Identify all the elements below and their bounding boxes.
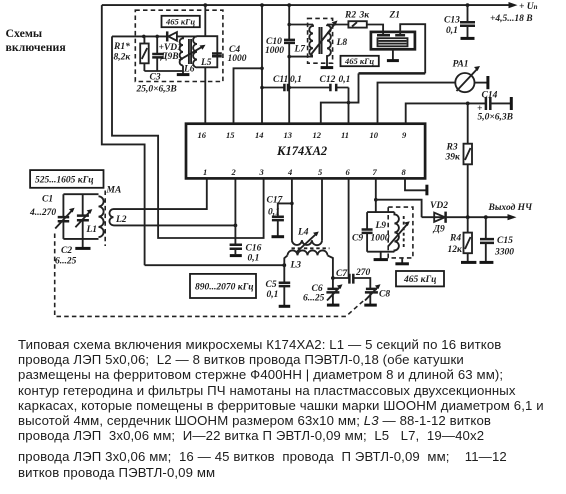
- node rail-pin13: [287, 3, 291, 7]
- svg-text:С13: С13: [444, 16, 460, 26]
- resistor R1: [143, 36, 145, 71]
- node R3 top: [466, 102, 470, 106]
- svg-text:0,1: 0,1: [248, 254, 260, 264]
- svg-text:L4: L4: [297, 228, 309, 238]
- diode VD1: [168, 32, 177, 41]
- inductor L7: [309, 25, 313, 56]
- svg-text:С9: С9: [352, 234, 363, 244]
- capacitor C13: [467, 5, 469, 22]
- wire L7 taps: [289, 25, 313, 57]
- node R1 top: [142, 35, 146, 39]
- svg-text:1: 1: [203, 167, 207, 177]
- core L5/L6: [189, 39, 191, 64]
- inductor L1: [99, 196, 104, 237]
- svg-text:8,2к: 8,2к: [114, 53, 132, 63]
- svg-text:25,0×6,3В: 25,0×6,3В: [136, 85, 177, 95]
- node L7 bottom tap: [287, 55, 291, 59]
- svg-text:С5: С5: [266, 280, 277, 290]
- diode VD2: [434, 213, 445, 222]
- dashed box IF transformer L7/L8: [308, 18, 333, 63]
- core L9: [403, 216, 405, 249]
- svg-text:L1: L1: [86, 225, 98, 235]
- wire R2 to Z1: [367, 25, 383, 36]
- svg-text:L9: L9: [375, 221, 387, 231]
- capacitor C8 (tuning, ganged): [365, 289, 378, 293]
- wire rail to pin 14: [261, 5, 263, 124]
- wire R1/C3 bottom: [144, 70, 183, 72]
- wire pin 10 to PA1: [378, 83, 456, 124]
- wire pin 11: [348, 88, 350, 124]
- core L3/L4: [292, 247, 330, 249]
- svg-text:5: 5: [318, 167, 323, 177]
- capacitor C10: [284, 40, 295, 43]
- svg-text:1000: 1000: [371, 234, 390, 244]
- capacitor C11: [284, 84, 288, 91]
- svg-text:270: 270: [355, 268, 371, 278]
- node C6/C7: [331, 276, 335, 280]
- supply rail +Un: [102, 4, 515, 6]
- node rail-pin14: [260, 3, 264, 7]
- svg-text:R3: R3: [446, 143, 458, 153]
- node pin2-L2: [234, 224, 238, 228]
- node C11 left: [260, 86, 264, 90]
- inductor L4 (heterodyne, variable): [292, 240, 322, 245]
- svg-text:Выход НЧ: Выход НЧ: [488, 202, 534, 213]
- wire rail to C10 (pin 13 line): [288, 5, 290, 124]
- svg-text:С17: С17: [267, 196, 284, 206]
- svg-text:VD2: VD2: [430, 201, 448, 211]
- core L7/L8: [319, 27, 321, 54]
- capacitor C17: [278, 203, 292, 216]
- wire C11/C12 bus: [262, 87, 349, 89]
- node L7 top tap: [287, 23, 291, 27]
- svg-text:Z1: Z1: [389, 11, 401, 21]
- capacitor C14: [486, 97, 490, 110]
- svg-text:R4: R4: [449, 234, 461, 244]
- wire pin 7 to L9 tank: [375, 178, 377, 212]
- svg-text:С2: С2: [61, 246, 72, 256]
- svg-text:R1*: R1*: [113, 41, 130, 52]
- inductor L5 tank with C4: [197, 36, 217, 67]
- inductor L9: [394, 212, 399, 252]
- wire pin 2 down to C16: [234, 178, 236, 244]
- wire pin 8 tap: [405, 178, 427, 190]
- svg-text:L2: L2: [115, 215, 127, 225]
- svg-text:1000: 1000: [265, 46, 284, 56]
- capacitor C9: [362, 230, 373, 233]
- svg-text:0,1: 0,1: [446, 26, 458, 36]
- inductor L3: [288, 250, 328, 255]
- svg-text:6...25: 6...25: [55, 257, 77, 267]
- svg-text:3к: 3к: [359, 11, 371, 21]
- arrow through L9: [388, 224, 408, 247]
- svg-text:С16: С16: [246, 244, 262, 254]
- wire rail to bottom common (outer step): [102, 5, 145, 265]
- capacitor C7: [333, 277, 349, 279]
- wire output: [422, 216, 514, 218]
- caption left: Схемы включения: [6, 26, 66, 55]
- svg-text:14: 14: [255, 130, 264, 140]
- resistor R2: [348, 21, 366, 27]
- svg-text:С3: С3: [150, 73, 161, 83]
- input tank L1/C1/C2: [63, 194, 98, 239]
- svg-text:С6: С6: [312, 284, 323, 294]
- capacitor C15: [485, 217, 487, 238]
- svg-text:10: 10: [370, 130, 379, 140]
- ground C16: [230, 254, 242, 257]
- mechanical gang link C1-C8 (dashed): [55, 234, 365, 317]
- wire L5 top to rail: [204, 5, 206, 36]
- svg-text:525...1605 кГц: 525...1605 кГц: [35, 176, 94, 186]
- node pin7-VD2: [374, 198, 378, 202]
- svg-text:12к: 12к: [448, 245, 464, 255]
- wire branch to pin 15: [234, 68, 263, 123]
- inductor L6: [180, 36, 183, 65]
- svg-text:12: 12: [313, 130, 322, 140]
- inductor L8: [327, 25, 331, 67]
- wire pin 6 down: [348, 178, 350, 278]
- capacitor C5: [283, 265, 285, 282]
- svg-text:13: 13: [284, 130, 293, 140]
- node common-C5: [282, 263, 286, 267]
- wire bottom common rail: [145, 264, 285, 266]
- ground input tank: [82, 239, 84, 248]
- label box 465 kHz #2: [341, 56, 379, 66]
- label box 890...2070 kHz: [190, 274, 256, 298]
- svg-text:465 кГц: 465 кГц: [165, 17, 195, 27]
- svg-text:7: 7: [373, 167, 378, 177]
- svg-text:0,1: 0,1: [290, 75, 302, 85]
- inductor L2: [109, 209, 113, 225]
- node pin11-Z1: [347, 101, 351, 105]
- wire L8 top to R2: [327, 24, 348, 26]
- capacitor C1 (tuning, ganged): [58, 217, 69, 221]
- arrow through L5/L6: [179, 46, 203, 60]
- svg-text:L3: L3: [290, 261, 302, 271]
- ground L9 tank: [380, 252, 382, 259]
- capacitor C12: [330, 84, 336, 91]
- paragraph text: [18, 338, 501, 351]
- wire L5 bottom to pin 16: [204, 67, 206, 123]
- label box 465 kHz #1: [162, 16, 200, 27]
- wire pin 4 down + node C17: [291, 178, 293, 240]
- svg-text:9: 9: [402, 130, 407, 140]
- svg-text:890...2070 кГц: 890...2070 кГц: [195, 283, 254, 293]
- dashed box L9: [388, 207, 413, 258]
- svg-text:L5: L5: [200, 58, 212, 68]
- svg-text:С7: С7: [336, 269, 348, 279]
- wire AGC inner step (R1 group to pins 2,3): [112, 36, 264, 238]
- svg-text:6...25: 6...25: [303, 294, 325, 304]
- resistor R3: [467, 103, 469, 217]
- svg-text:4: 4: [287, 167, 292, 177]
- svg-text:39к: 39к: [445, 153, 462, 163]
- svg-text:L8: L8: [336, 38, 348, 48]
- svg-text:+ Uп: + Uп: [519, 2, 538, 12]
- svg-text:0,1: 0,1: [268, 208, 280, 218]
- node C11/C12 mid: [287, 86, 291, 90]
- ground L6: [182, 66, 184, 74]
- IC U1 K174XA2: [186, 124, 425, 179]
- wire L2 bottom to pin 2: [114, 224, 236, 226]
- svg-text:С12: С12: [320, 75, 336, 85]
- svg-text:16: 16: [198, 130, 207, 140]
- label box 465 kHz #3: [396, 271, 444, 286]
- node C3 top: [155, 35, 159, 39]
- ground L8: [321, 66, 334, 69]
- svg-text:2: 2: [231, 167, 237, 177]
- svg-text:R2: R2: [344, 11, 356, 21]
- svg-text:С8: С8: [379, 290, 390, 300]
- capacitor C2 (trimmer): [82, 194, 84, 239]
- capacitor C16: [230, 245, 242, 249]
- svg-text:0,1: 0,1: [267, 290, 279, 300]
- svg-text:465 кГц: 465 кГц: [344, 56, 374, 66]
- svg-text:3300: 3300: [494, 248, 514, 258]
- node C15: [484, 215, 488, 219]
- capacitor C3: [156, 36, 158, 71]
- capacitor C4: [212, 54, 222, 57]
- svg-text:11: 11: [341, 130, 349, 140]
- arrow through L7/L8: [311, 24, 335, 55]
- svg-text:L7: L7: [294, 45, 307, 55]
- meter PA1: [455, 73, 474, 92]
- svg-text:С11: С11: [273, 75, 288, 85]
- IF tank L9/C9: [367, 212, 394, 252]
- ground Z1: [392, 49, 394, 60]
- node pin15 branch: [260, 67, 264, 71]
- label box 525...1605 kHz: [30, 170, 103, 188]
- svg-text:5,0×6,3В: 5,0×6,3В: [478, 113, 514, 123]
- capacitor C6 (trimmer): [332, 278, 334, 288]
- node rail-C13: [466, 3, 470, 7]
- ground L9 box: [401, 258, 403, 263]
- svg-text:0,1: 0,1: [339, 75, 351, 85]
- wire pin 9 to C14: [406, 103, 486, 123]
- svg-text:РА1: РА1: [453, 60, 469, 70]
- dashed box IF trap (R1 VD1 L5 L6 C3 C4): [135, 10, 223, 81]
- svg-text:1000: 1000: [228, 54, 247, 64]
- svg-text:К174ХА2: К174ХА2: [276, 144, 327, 158]
- svg-text:4...270: 4...270: [29, 208, 56, 218]
- svg-text:С15: С15: [497, 236, 513, 246]
- svg-text:С1: С1: [42, 195, 53, 205]
- wire L2 top to pin 1: [114, 178, 207, 209]
- svg-text:+4,5...18 В: +4,5...18 В: [490, 14, 533, 24]
- wire Z1 right electrode to pins 11/12: [400, 24, 425, 73]
- node R4: [466, 215, 470, 219]
- svg-text:МА: МА: [106, 186, 122, 196]
- wire pin 5 down: [321, 178, 323, 240]
- svg-text:Д9: Д9: [433, 225, 445, 235]
- svg-text:3: 3: [259, 167, 265, 177]
- svg-text:6: 6: [346, 167, 351, 177]
- svg-text:15: 15: [226, 130, 235, 140]
- node rail-L5: [203, 3, 207, 7]
- svg-text:465 кГц: 465 кГц: [403, 275, 436, 285]
- resistor R4: [467, 217, 469, 261]
- wire R1 group top: [112, 35, 167, 37]
- svg-text:С14: С14: [482, 91, 498, 101]
- svg-text:8: 8: [402, 167, 407, 177]
